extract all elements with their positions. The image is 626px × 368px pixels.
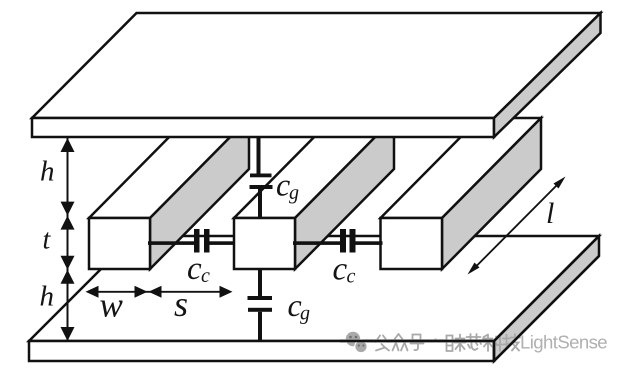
svg-text:g: g (300, 303, 310, 325)
svg-text:h: h (40, 156, 55, 188)
svg-text:c: c (201, 265, 210, 287)
svg-text:l: l (546, 197, 554, 230)
svg-text:c: c (333, 252, 348, 288)
svg-text:s: s (174, 284, 188, 324)
svg-text:c: c (187, 251, 202, 287)
svg-text:h: h (40, 281, 55, 313)
svg-text:t: t (43, 225, 52, 256)
svg-text:w: w (100, 286, 124, 325)
svg-text:LightSense: LightSense (520, 332, 607, 353)
svg-text:c: c (347, 266, 356, 288)
svg-text:g: g (289, 182, 299, 204)
